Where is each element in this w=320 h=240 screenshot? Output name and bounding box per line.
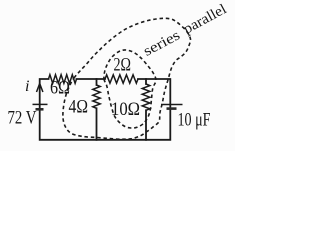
svg-text:72 V: 72 V xyxy=(8,109,38,129)
svg-text:10 μF: 10 μF xyxy=(178,111,211,131)
svg-text:series: series xyxy=(141,27,183,60)
svg-text:i: i xyxy=(25,78,29,95)
svg-text:6Ω: 6Ω xyxy=(50,79,70,99)
svg-text:10Ω: 10Ω xyxy=(111,100,140,120)
svg-text:4Ω: 4Ω xyxy=(69,98,89,118)
svg-text:parallel: parallel xyxy=(181,1,229,37)
svg-text:2Ω: 2Ω xyxy=(114,56,132,76)
